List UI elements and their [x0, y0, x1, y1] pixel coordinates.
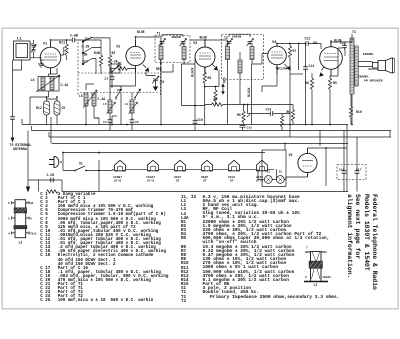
wire: top grid line V1 [51, 39, 102, 41]
resistor R7 right of V4 [288, 46, 291, 57]
svg-text:R5: R5 [237, 113, 241, 117]
junction dot C10 [194, 105, 196, 107]
svg-text:◄5: ◄5 [30, 202, 34, 205]
svg-text:N2: N2 [85, 37, 89, 41]
capacitor C15 bars on bus [240, 125, 246, 130]
trimmer arrow L3c [129, 102, 138, 114]
svg-text:BLUE: BLUE [200, 36, 208, 40]
resistor R12 under V1 [44, 101, 50, 115]
svg-text:GREEN: GREEN [232, 35, 241, 39]
svg-text:BLACK: BLACK [247, 87, 251, 97]
resistor R2 vertical [108, 55, 111, 66]
wire: T1 to V3 link [190, 40, 205, 47]
wire: ground bus 1 [22, 119, 348, 125]
resistor R3 under V3 [203, 72, 206, 83]
wire: L4 connections [30, 68, 57, 125]
resistor R5 vertical (vol) [242, 111, 245, 122]
capacitor C12 top [304, 41, 310, 46]
T1 left trimmer [159, 39, 166, 47]
svg-text:GT: GT [203, 180, 207, 183]
wire: AVC bus [51, 117, 348, 144]
svg-text:GT: GT [230, 180, 234, 183]
svg-text:R10: R10 [356, 110, 362, 114]
parts list right column [203, 196, 330, 296]
svg-text:GREEN: GREEN [172, 35, 181, 39]
svg-text:7&12: 7&12 [30, 232, 37, 235]
osc coil L4 box [36, 75, 60, 92]
svg-text:C4: C4 [103, 121, 107, 124]
svg-text:V2: V2 [116, 46, 120, 50]
svg-text:3B: 3B [84, 53, 88, 57]
dashed gang link horizontal [78, 60, 160, 96]
wire: L5 nets [86, 84, 99, 125]
wire: ground bus 3 [49, 132, 391, 137]
T1 left winding [159, 47, 163, 60]
svg-text:C7: C7 [105, 77, 109, 81]
wire: R2b [215, 87, 217, 105]
svg-text:YELLOW: YELLOW [276, 67, 288, 71]
svg-text:L5: L5 [103, 103, 107, 106]
svg-text:C-3A: C-3A [61, 83, 69, 87]
svg-text:I2: I2 [279, 171, 283, 174]
capacitor ant series [10, 115, 15, 121]
svg-text:C-CN: C-CN [47, 173, 55, 177]
loop L2 winding band 2 [14, 225, 27, 229]
resistor R4 horizontal [212, 103, 223, 106]
wire: T2 internals [228, 34, 253, 124]
parts list + side text [0, 0, 400, 1]
antenna coil L1 box [14, 41, 31, 60]
wire: V6 nets [286, 148, 347, 186]
ground arrow mains [26, 187, 30, 193]
capacitor C4b [108, 118, 113, 124]
svg-text:C-4A: C-4A [98, 97, 106, 101]
ground arrow C6 [153, 87, 158, 92]
resistor R11 [65, 44, 68, 55]
trimmer arrow L5b [107, 102, 116, 114]
arrow V4 cathode [285, 64, 291, 70]
coil L3 base [304, 281, 328, 283]
svg-text:4: 4 [30, 217, 32, 220]
svg-text:C-2A: C-2A [110, 60, 118, 64]
svg-text:C14: C14 [266, 108, 272, 112]
coil L5b slug [108, 100, 112, 113]
coil L3 flanges [305, 251, 327, 253]
resistor mid extra [280, 116, 283, 127]
tube V4 [268, 44, 287, 75]
wire: lamps [258, 144, 286, 180]
wire: T1 internals [161, 35, 184, 125]
wire: T3 to plate [351, 34, 353, 125]
loop L2 lugs [12, 201, 30, 234]
resistor R10 filter [349, 106, 352, 117]
primary impedance line [210, 296, 340, 300]
svg-text:C14: C14 [309, 64, 315, 68]
wire: line to heater rail [99, 153, 108, 192]
transformer T3 windings [350, 38, 358, 94]
svg-text:T3: T3 [352, 30, 356, 34]
wire: ground bus 2 [32, 126, 392, 131]
wire: T1 sec to V3 grid [184, 57, 195, 106]
svg-text:V5: V5 [313, 42, 317, 46]
tube V5 [320, 40, 343, 76]
svg-text:L1: L1 [17, 38, 22, 42]
capacitor C13 [342, 44, 347, 50]
capacitor C5 beside R12 [54, 101, 60, 115]
heater V6f [255, 160, 270, 171]
coil L3 bobbin [311, 252, 322, 282]
tube V6 [298, 148, 317, 177]
T2 right trimmer [247, 39, 254, 47]
dial lamp box [262, 150, 286, 187]
parts list left column C1-C24 [40, 193, 168, 304]
svg-text:PM SPEAKER: PM SPEAKER [364, 78, 383, 82]
wire: R12/C5 to buses [47, 97, 58, 125]
svg-text:C6: C6 [161, 80, 165, 84]
resistor R1 under V2 [116, 67, 127, 70]
T2 left trimmer [226, 39, 233, 47]
wire: heater chain [108, 169, 274, 170]
capacitor C10 drop [193, 119, 198, 125]
coil L3 winding band [309, 261, 323, 268]
heater V2a [113, 160, 128, 171]
speaker [358, 58, 394, 74]
trimmer C-2A box [111, 64, 120, 73]
svg-text:R7: R7 [293, 49, 297, 53]
resistor R6 vertical right [291, 110, 294, 121]
svg-text:ENAMEL: ENAMEL [363, 52, 374, 56]
svg-text:MC353: MC353 [369, 67, 378, 71]
wire: C13b drop [305, 44, 307, 125]
switch S1 [75, 166, 99, 171]
osc section L5 windings [83, 90, 97, 108]
tube V1 [40, 41, 61, 74]
svg-text:I1: I1 [267, 171, 271, 174]
capacitor C7 [110, 75, 115, 81]
wire: mid extra resistor [281, 114, 283, 131]
lamp I2 [276, 176, 284, 184]
capacitor C6b [130, 118, 135, 124]
loop L2 bobbin [15, 200, 26, 238]
svg-text:R11: R11 [59, 42, 65, 46]
tuning gang cap C2 [31, 45, 36, 53]
wire: V5 nets [331, 38, 352, 56]
parts list middle designator column [181, 196, 196, 304]
vertical text: Federal Telephone & Radio [371, 194, 377, 290]
svg-text:4: 4 [8, 232, 10, 235]
wire: R1 net [110, 69, 136, 87]
loop L2 winding band 1 [14, 208, 27, 213]
svg-text:ANTENNA: ANTENNA [13, 147, 27, 151]
wire: bottom rail [62, 191, 348, 193]
wire: gang coils nets [110, 86, 135, 131]
svg-text:C15: C15 [247, 127, 253, 130]
tube V3 [195, 40, 215, 74]
svg-text:V1: V1 [43, 43, 47, 47]
wire: V3 to T2 link [205, 40, 228, 43]
power plug [49, 157, 62, 168]
wire: R4 line [182, 105, 245, 106]
wire: T2 to V4 grid [252, 54, 269, 125]
antenna arrowhead [11, 138, 15, 143]
svg-text:2: 2 [8, 217, 10, 220]
svg-text:RED: RED [156, 67, 162, 71]
vertical text: See next page for [354, 194, 360, 259]
wire: under V3 [205, 67, 219, 125]
T2 right winding [250, 47, 254, 60]
svg-text:R4: R4 [214, 98, 218, 102]
svg-text:GY/G: GY/G [114, 179, 121, 183]
switch contacts band [82, 37, 93, 65]
slug arrow below T2 [222, 84, 224, 94]
svg-text:L3: L3 [125, 103, 129, 106]
svg-text:GY/G: GY/G [147, 179, 154, 183]
T1 right trimmer [180, 39, 187, 47]
svg-text:T2: T2 [224, 36, 228, 40]
wire: filament rail top [63, 152, 265, 154]
coil L3 leads [312, 252, 321, 279]
vertical text: alignment information. [345, 194, 351, 278]
capacitor C13b [303, 65, 308, 71]
arrow V5 cathode [320, 67, 325, 77]
resistor R2b diode load [214, 90, 217, 101]
svg-text:R12: R12 [36, 106, 42, 110]
svg-text:R3: R3 [208, 76, 212, 80]
wire: C6 cluster [146, 76, 156, 87]
wire: L1 top to grid [30, 40, 42, 58]
resistor R8 under V5 [310, 78, 313, 89]
svg-text:V3: V3 [193, 42, 197, 46]
resistor R4B vertical [99, 55, 102, 66]
wire: v drops row [110, 72, 136, 86]
svg-text:C5: C5 [62, 106, 66, 110]
junction dot V3 cathode [204, 86, 206, 88]
svg-text:C-AB: C-AB [70, 34, 78, 38]
svg-text:R6: R6 [287, 110, 291, 114]
T1 dashed box [155, 36, 190, 63]
svg-text:BLACK: BLACK [191, 67, 195, 77]
wire: V2 cathode drop [145, 71, 147, 75]
svg-text:9: 9 [8, 202, 10, 205]
svg-text:R4B: R4B [94, 51, 100, 55]
wire: electrolytic drops [344, 131, 357, 192]
gang section arrow 3 [135, 89, 141, 98]
svg-text:C6: C6 [135, 121, 139, 124]
heater V4d [200, 160, 215, 171]
dashed box C16 [337, 165, 366, 180]
wire: antenna drop [13, 60, 22, 115]
svg-text:RED: RED [223, 77, 227, 83]
T2 dashed box [222, 35, 264, 80]
line RC filter loop [28, 180, 62, 192]
capacitor C-AB top [71, 38, 77, 43]
wire: plug to rails [63, 153, 74, 171]
T1 right winding [182, 47, 186, 60]
capacitor C16 sect 2 [355, 169, 360, 175]
wire: net around switch [83, 38, 110, 74]
T2 tertiary winding [238, 60, 242, 73]
wire: C14 line [248, 105, 291, 114]
svg-text:T1: T1 [157, 32, 161, 36]
lamp I1 [264, 176, 272, 184]
trimmer C6 with ground [152, 76, 159, 84]
grid cap marks [61, 47, 64, 55]
capacitor C14 [269, 111, 275, 116]
wire: V2 plate to T1 [136, 37, 162, 43]
svg-text:R8: R8 [305, 81, 309, 85]
svg-text:GT: GT [176, 180, 180, 183]
heater V5e [227, 160, 242, 171]
svg-text:C10: C10 [197, 118, 203, 122]
svg-text:R2: R2 [112, 51, 116, 55]
capacitor C16 sect 1 [342, 169, 347, 175]
wire: V4 plate to C12 line [277, 44, 321, 71]
resistor R9 under V5 [328, 78, 331, 89]
heater V2b [146, 160, 161, 171]
dashed gang line [77, 42, 79, 96]
svg-text:L2: L2 [19, 241, 23, 245]
T2 left winding [226, 47, 230, 60]
wire: R5 [244, 105, 251, 125]
coil L3c slug [130, 100, 134, 113]
svg-text:L4: L4 [31, 79, 35, 83]
svg-text:S1: S1 [79, 162, 83, 166]
arrow V2 cathode [143, 65, 149, 72]
svg-text:L5: L5 [79, 94, 83, 98]
ground at V1 cathode [38, 62, 44, 67]
svg-text:V6: V6 [289, 154, 293, 158]
arrow diode detail [212, 64, 218, 71]
svg-text:BLUE: BLUE [137, 30, 145, 34]
junction dot V6 plate [325, 147, 327, 149]
heater V3c [173, 160, 188, 171]
svg-text:R9: R9 [333, 81, 337, 85]
capacitor C-CN [49, 178, 55, 183]
svg-text:R1: R1 [118, 62, 122, 66]
tube V2 [126, 40, 145, 72]
wire: chassis drop [27, 131, 29, 181]
svg-text:C12: C12 [305, 37, 311, 41]
gang section arrow 2 [116, 89, 122, 98]
wire: C10 [194, 106, 196, 131]
vertical text: Models 1030T & 1540T [362, 194, 368, 271]
resistor R-CN [47, 190, 58, 193]
